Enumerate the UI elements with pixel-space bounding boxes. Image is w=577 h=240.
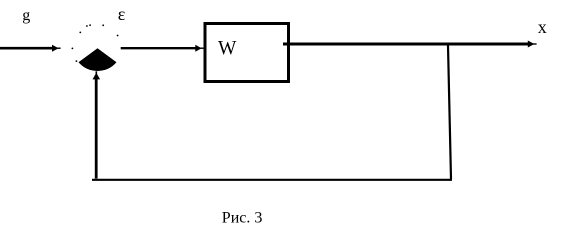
svg-text:ε: ε (118, 4, 126, 24)
node: summing junction dotted circle (72, 24, 119, 62)
arrowhead: epsilon arrow into block W (195, 45, 203, 52)
arrowhead: output arrow x (528, 41, 537, 48)
wire: feedback vertical shaft up to summing junction (95, 79, 98, 179)
wire: epsilon line from summing junction to block W (121, 47, 197, 49)
arrowhead: input arrow into summing junction (52, 45, 61, 52)
label x (output signal) (538, 17, 547, 37)
wire: feedback vertical line down from output (448, 46, 451, 180)
svg-text:Рис. 3: Рис. 3 (222, 210, 263, 227)
wire: output line from block W to x (283, 43, 529, 46)
svg-text:x: x (538, 17, 547, 37)
arrowhead: feedback arrow up into summing junction (93, 71, 101, 79)
wire: input line g to summing junction (0, 47, 53, 50)
label W inside block (218, 38, 237, 59)
summing junction: filled sector (comparator) (79, 48, 117, 71)
label epsilon (error signal) (118, 4, 126, 24)
label g (input signal) (22, 7, 30, 24)
caption: Рис. 3 (222, 210, 263, 227)
wire: feedback bottom horizontal line (92, 179, 452, 181)
svg-text:W: W (218, 38, 237, 59)
svg-text:g: g (22, 7, 30, 24)
block W (transfer function) (205, 24, 289, 82)
